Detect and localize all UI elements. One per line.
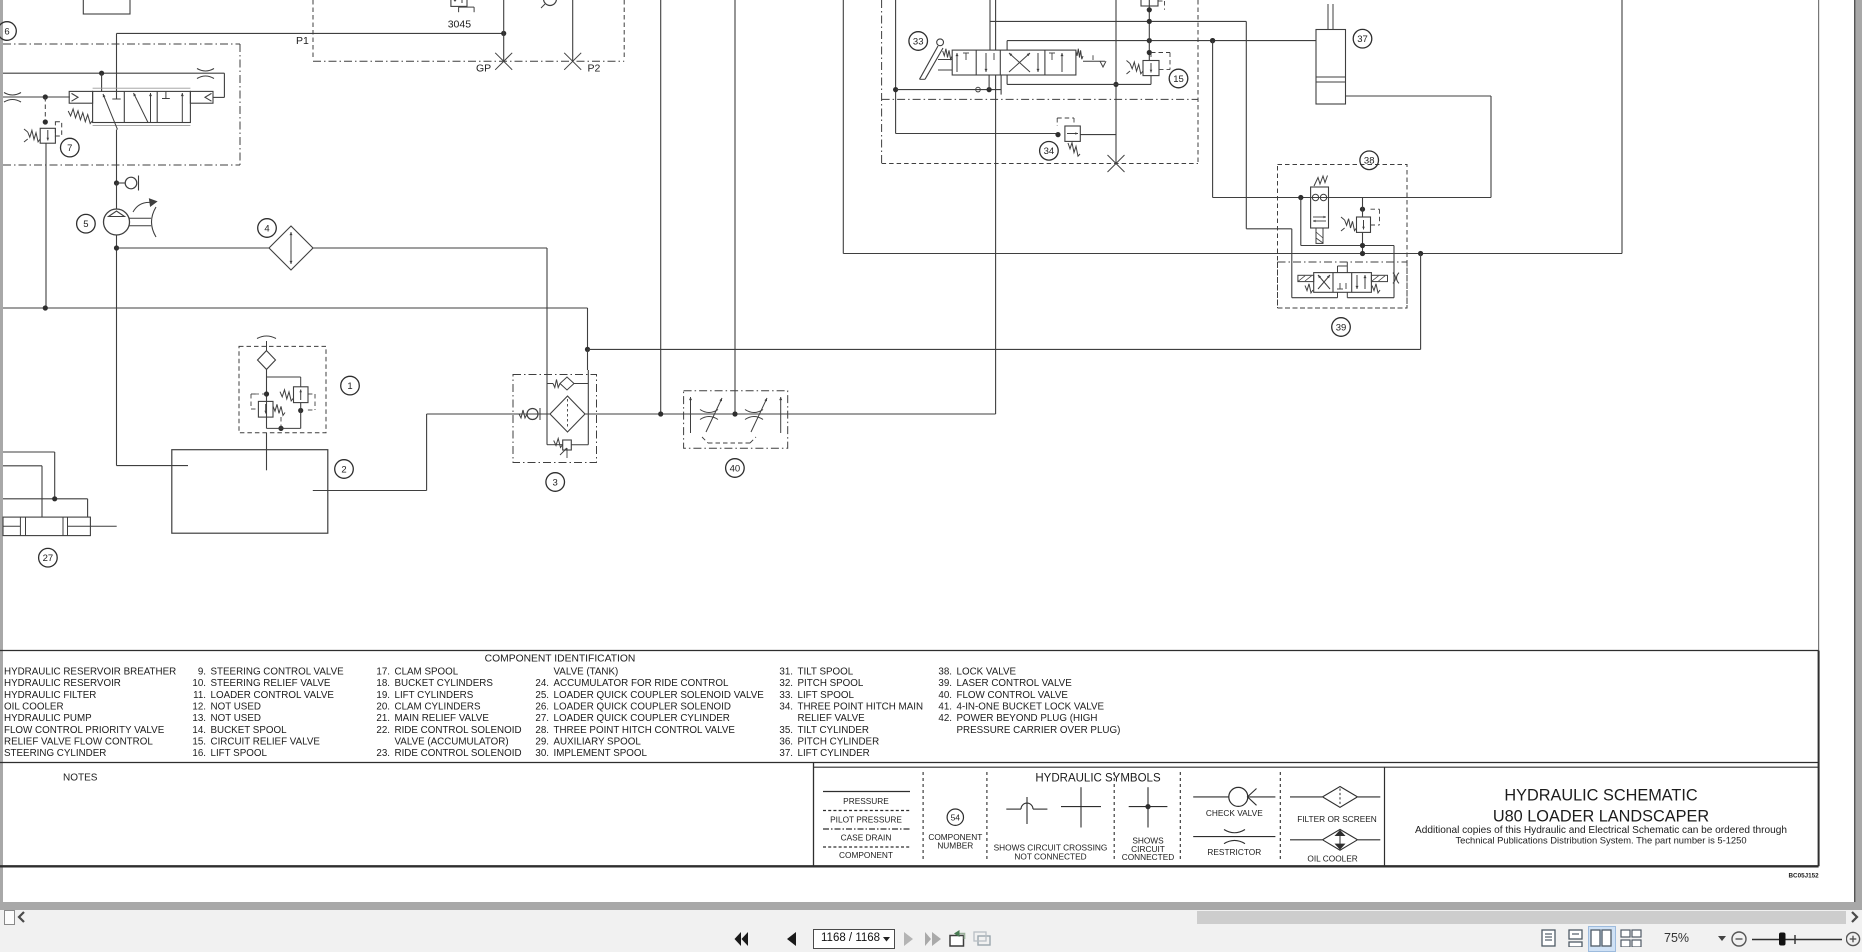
svg-text:LOADER QUICK COUPLER SOLENOID: LOADER QUICK COUPLER SOLENOID VALVE [554, 690, 765, 701]
valve 39 actuators [1298, 275, 1314, 281]
scrollbar left arrow [16, 911, 28, 923]
zoom percent [1664, 931, 1689, 945]
notes hydraulic-symbols divider [813, 763, 815, 867]
svg-text:RELIEF VALVE FLOW CONTROL: RELIEF VALVE FLOW CONTROL [4, 736, 153, 747]
svg-text:GP: GP [476, 63, 491, 75]
svg-text:39.: 39. [938, 678, 952, 689]
valve 6 spring [68, 109, 92, 124]
previous view button [949, 929, 968, 948]
cylinder 27 port wires [3, 451, 55, 453]
svg-text:LOADER CONTROL VALVE: LOADER CONTROL VALVE [211, 690, 335, 701]
GP plug X [495, 53, 512, 70]
pump case drain arrow [133, 202, 152, 212]
symbols box top [814, 766, 1819, 768]
wire valve33 bottom loop to relief 15 [1006, 75, 1008, 84]
svg-text:31.: 31. [779, 667, 793, 678]
node pilot branch [43, 94, 48, 99]
svg-text:LOCK VALVE: LOCK VALVE [957, 667, 1017, 678]
svg-text:POWER BEYOND PLUG (HIGH: POWER BEYOND PLUG (HIGH [957, 713, 1098, 724]
sheet right border frame [1818, 0, 1820, 866]
svg-text:38: 38 [1364, 156, 1375, 167]
scrollbar right arrow [1848, 911, 1860, 923]
svg-text:4-IN-ONE BUCKET LOCK VALVE: 4-IN-ONE BUCKET LOCK VALVE [957, 701, 1105, 712]
valve 6 section arrows [103, 94, 118, 130]
plug X on box 33 [1108, 155, 1125, 172]
gauge circle top [544, 0, 557, 6]
scrollbar left stub box [4, 910, 15, 925]
svg-text:7: 7 [67, 143, 72, 154]
valve 39 body [1314, 273, 1372, 293]
svg-text:NOT USED: NOT USED [211, 713, 261, 724]
wire B-line long vertical [734, 0, 736, 414]
svg-text:RIDE CONTROL SOLENOID: RIDE CONTROL SOLENOID [395, 725, 522, 736]
svg-text:38.: 38. [938, 667, 952, 678]
legend crossing plain symbol [1061, 806, 1101, 808]
svg-text:VALVE (TANK): VALVE (TANK) [554, 667, 619, 678]
svg-text:15: 15 [1173, 74, 1184, 85]
svg-text:NOT CONNECTED: NOT CONNECTED [1014, 852, 1086, 862]
svg-text:LOADER QUICK COUPLER SOLENOID: LOADER QUICK COUPLER SOLENOID [554, 701, 731, 712]
lock valve element [1311, 187, 1329, 228]
svg-text:HYDRAULIC RESERVOIR: HYDRAULIC RESERVOIR [4, 678, 121, 689]
valve 33 lever [937, 39, 944, 46]
hydraulic reservoir 2 [172, 450, 328, 534]
svg-text:LIFT SPOOL: LIFT SPOOL [798, 690, 855, 701]
svg-text:29.: 29. [535, 736, 549, 747]
svg-text:P2: P2 [588, 63, 601, 75]
svg-text:PITCH SPOOL: PITCH SPOOL [798, 678, 864, 689]
svg-text:22.: 22. [376, 725, 390, 736]
svg-text:NOT USED: NOT USED [211, 701, 261, 712]
wire flow control drop [1420, 254, 1422, 350]
reservoir breather 1 dashed box [239, 346, 326, 432]
svg-text:36.: 36. [779, 736, 793, 747]
lift cylinder 37 [1316, 30, 1346, 105]
zoom out circle [1731, 931, 1747, 947]
wire pilot column [1148, 0, 1150, 61]
legend cell dividers [922, 772, 924, 861]
svg-text:37: 37 [1357, 34, 1368, 45]
svg-text:COMPONENT: COMPONENT [839, 850, 893, 860]
node circle 40 [726, 459, 745, 478]
wire pump to filter 4 [117, 247, 548, 249]
svg-text:40: 40 [730, 463, 741, 474]
page number box [813, 929, 895, 949]
svg-text:U80 LOADER LANDSCAPER: U80 LOADER LANDSCAPER [1493, 808, 1709, 826]
sheet bottom border [0, 865, 1819, 867]
svg-text:LIFT SPOOL: LIFT SPOOL [211, 748, 268, 759]
two page view icon (active) [1588, 926, 1616, 952]
svg-text:12.: 12. [192, 701, 206, 712]
wire tank return long [3, 307, 588, 309]
svg-text:19.: 19. [376, 690, 390, 701]
svg-text:16.: 16. [192, 748, 206, 759]
next view button (disabled) [973, 929, 992, 948]
svg-text:TILT CYLINDER: TILT CYLINDER [798, 725, 870, 736]
valve 3 check inline [519, 410, 527, 418]
tank outlet wire [313, 490, 427, 492]
node circle 34 [1040, 142, 1059, 161]
flow control 40 internals [690, 397, 692, 433]
node circle 4 [258, 219, 277, 238]
lock valve 38 dashed box [1278, 165, 1408, 309]
relief valve 7 [40, 128, 55, 143]
restrictor on left inlet wire [4, 93, 21, 96]
svg-text:CHECK VALVE: CHECK VALVE [1206, 808, 1263, 818]
svg-text:21.: 21. [376, 713, 390, 724]
svg-text:OIL COOLER: OIL COOLER [4, 701, 64, 712]
single page view icon [1541, 929, 1556, 947]
legend crossing hop symbol [1006, 808, 1021, 810]
box1 bottom wires [278, 426, 283, 431]
svg-text:14.: 14. [192, 725, 206, 736]
svg-text:27.: 27. [535, 713, 549, 724]
wire to relief 34 [896, 133, 1058, 135]
valve 33 internal arrows [956, 53, 958, 72]
svg-text:LIFT CYLINDER: LIFT CYLINDER [798, 748, 870, 759]
check valve near pump [114, 180, 119, 185]
wire relief to tank wire [1362, 232, 1364, 253]
svg-text:34.: 34. [779, 701, 793, 712]
svg-text:BUCKET SPOOL: BUCKET SPOOL [211, 725, 288, 736]
wire 39 frame right [1393, 246, 1395, 298]
loader valve dashed box 33/34 [881, 0, 883, 164]
wire 40 to vertical [995, 75, 997, 414]
wire lock valve top [1213, 197, 1491, 199]
svg-text:CIRCUIT RELIEF VALVE: CIRCUIT RELIEF VALVE [211, 736, 321, 747]
wire inside box 1 [266, 369, 268, 428]
wire upper pilot to valve 6 [3, 72, 224, 74]
P2 plug X [564, 53, 581, 70]
svg-text:33: 33 [913, 36, 924, 47]
tank inlet wire [117, 465, 189, 467]
svg-text:RESTRICTOR: RESTRICTOR [1207, 847, 1261, 857]
relief valve 34 [1055, 132, 1060, 137]
svg-text:AUXILIARY SPOOL: AUXILIARY SPOOL [554, 736, 642, 747]
node circle 38 [1360, 151, 1379, 170]
legend restrictor [1193, 836, 1275, 838]
valve 3 check top [547, 383, 553, 385]
svg-text:HYDRAULIC SYMBOLS: HYDRAULIC SYMBOLS [1035, 773, 1161, 785]
svg-text:LASER CONTROL VALVE: LASER CONTROL VALVE [957, 678, 1073, 689]
svg-text:PRESSURE: PRESSURE [843, 796, 889, 806]
svg-text:15.: 15. [192, 736, 206, 747]
svg-text:THREE POINT HITCH MAIN: THREE POINT HITCH MAIN [798, 701, 924, 712]
svg-text:RELIEF VALVE: RELIEF VALVE [798, 713, 866, 724]
valve 6 left actuator [69, 91, 92, 103]
valve 3 inner frame [546, 375, 548, 445]
svg-text:COMPONENT IDENTIFICATION: COMPONENT IDENTIFICATION [485, 654, 636, 665]
svg-text:6: 6 [4, 26, 9, 37]
zoom slider [1750, 931, 1850, 947]
wire valve33 bottom left [896, 89, 1002, 91]
node P1 junction [501, 31, 506, 36]
next page button (disabled) [902, 932, 914, 946]
steering cylinder 27 [3, 517, 90, 536]
node circle 3 [546, 473, 565, 492]
laser control valve 39 dash-dot box [1278, 261, 1408, 263]
svg-text:FLOW CONTROL VALVE: FLOW CONTROL VALVE [957, 690, 1069, 701]
component identification table frame [0, 650, 1819, 652]
legend oil cooler [1290, 839, 1322, 841]
title block divider [1384, 767, 1386, 866]
valve 39 top ports [1337, 266, 1339, 273]
laser relief valve in 38 [1360, 207, 1365, 212]
oil cooler 4 diamond [269, 226, 313, 270]
svg-text:11.: 11. [193, 690, 206, 701]
svg-text:NOTES: NOTES [63, 773, 98, 784]
valve 33 detent [1083, 60, 1105, 62]
svg-text:4: 4 [264, 223, 269, 234]
svg-text:ACCUMULATOR FOR RIDE CONTROL: ACCUMULATOR FOR RIDE CONTROL [554, 678, 729, 689]
legend component number [947, 809, 963, 825]
valve 33 springs [943, 49, 953, 60]
svg-text:RIDE CONTROL SOLENOID: RIDE CONTROL SOLENOID [395, 748, 522, 759]
restrictor on upper pilot wire [197, 69, 214, 72]
svg-text:THREE POINT HITCH CONTROL VALV: THREE POINT HITCH CONTROL VALVE [554, 725, 736, 736]
scrollbar thumb [1197, 911, 1846, 924]
svg-text:34: 34 [1044, 146, 1055, 157]
breather filter diamond [258, 351, 276, 370]
svg-text:Technical Publications Distrib: Technical Publications Distribution Syst… [1455, 835, 1746, 846]
wire power beyond top [1245, 21, 1247, 228]
wire tank loop right vertical [1621, 0, 1623, 254]
svg-text:54: 54 [951, 813, 961, 823]
svg-text:HYDRAULIC RESERVOIR BREATHER: HYDRAULIC RESERVOIR BREATHER [4, 667, 176, 678]
relief left in box 1 [258, 401, 273, 417]
solenoid at top pilot [1141, 0, 1158, 6]
svg-text:PRESSURE CARRIER OVER PLUG): PRESSURE CARRIER OVER PLUG) [957, 725, 1121, 736]
valve 6 right actuator [190, 91, 213, 103]
svg-text:BUCKET CYLINDERS: BUCKET CYLINDERS [395, 678, 494, 689]
node circle 5 [77, 214, 96, 233]
flow control valve 40 dash box [684, 391, 788, 449]
solenoid valve 3045 [451, 0, 467, 6]
valve 3 bypass relief [563, 440, 572, 450]
svg-text:3045: 3045 [448, 19, 472, 31]
svg-text:PILOT PRESSURE: PILOT PRESSURE [830, 815, 902, 825]
svg-text:CONNECTED: CONNECTED [1122, 852, 1175, 862]
svg-text:24.: 24. [535, 678, 549, 689]
svg-text:LIFT CYLINDERS: LIFT CYLINDERS [395, 690, 474, 701]
wire filter down to valve 3 [546, 248, 548, 375]
wire 39 frame left [1246, 228, 1292, 230]
control valve 33 body [952, 50, 1076, 75]
svg-text:26.: 26. [535, 701, 549, 712]
wire top feed corner [989, 0, 991, 50]
wire A-line long vertical [660, 0, 662, 414]
node circle 27 [39, 548, 58, 567]
svg-text:13.: 13. [192, 713, 206, 724]
svg-text:30.: 30. [535, 748, 549, 759]
GP P2 dashed box [312, 0, 314, 58]
node circle 33 [909, 32, 928, 51]
svg-text:17.: 17. [376, 667, 390, 678]
svg-text:1: 1 [347, 381, 352, 392]
two page continuous icon [1620, 929, 1642, 947]
svg-text:BC05J152: BC05J152 [1788, 873, 1819, 880]
svg-text:40.: 40. [938, 690, 952, 701]
svg-text:23.: 23. [376, 748, 390, 759]
legend filter or screen [1290, 796, 1322, 798]
pump drive symbol [130, 217, 152, 219]
svg-text:27: 27 [43, 553, 54, 564]
wire top return [1007, 40, 1316, 42]
svg-text:28.: 28. [535, 725, 549, 736]
legend connected symbol [1129, 806, 1168, 808]
node dots at 40 [658, 411, 663, 416]
svg-text:2: 2 [341, 464, 346, 475]
svg-text:MAIN RELIEF VALVE: MAIN RELIEF VALVE [395, 713, 490, 724]
wire P1 [117, 32, 504, 34]
svg-text:STEERING CYLINDER: STEERING CYLINDER [4, 748, 106, 759]
svg-text:STEERING RELIEF VALVE: STEERING RELIEF VALVE [211, 678, 331, 689]
svg-text:HYDRAULIC SCHEMATIC: HYDRAULIC SCHEMATIC [1504, 787, 1698, 805]
svg-text:CLAM CYLINDERS: CLAM CYLINDERS [395, 701, 481, 712]
svg-text:TILT SPOOL: TILT SPOOL [798, 667, 854, 678]
valve 39 bottom frame [1292, 297, 1338, 299]
breather cap [257, 336, 276, 339]
svg-text:P1: P1 [296, 35, 309, 47]
flow control priority valve box 6 (dashed) [3, 43, 240, 45]
svg-text:CLAM SPOOL: CLAM SPOOL [395, 667, 459, 678]
previous page button [786, 932, 798, 946]
zoom in circle [1846, 931, 1862, 947]
svg-text:41.: 41. [938, 701, 952, 712]
node circle 37 [1353, 29, 1372, 48]
svg-text:LOADER QUICK COUPLER CYLINDER: LOADER QUICK COUPLER CYLINDER [554, 713, 730, 724]
page right edge line [1854, 0, 1856, 902]
wire breather to tank [266, 433, 268, 471]
svg-text:IMPLEMENT SPOOL: IMPLEMENT SPOOL [554, 748, 648, 759]
wire cylinder rod side [1346, 95, 1492, 97]
svg-text:5: 5 [83, 219, 88, 230]
filter-valve 3 dashed box [513, 375, 597, 463]
wire tank loop left vertical [842, 0, 844, 254]
first page button [734, 932, 750, 946]
wire cylinder 37 feed [1210, 38, 1215, 43]
svg-text:HYDRAULIC PUMP: HYDRAULIC PUMP [4, 713, 92, 724]
continuous view icon [1568, 929, 1583, 947]
wire plugged port vertical [1115, 0, 1117, 164]
wire relief 7 to tank line [45, 143, 47, 308]
svg-text:42.: 42. [938, 713, 952, 724]
wire mid return long [588, 348, 1421, 350]
svg-text:OIL COOLER: OIL COOLER [1307, 854, 1357, 864]
svg-text:CASE DRAIN: CASE DRAIN [841, 833, 892, 843]
valve 6 body (steering priority spool) [93, 91, 191, 122]
relief right in box 1 [294, 387, 309, 403]
valve 3 filter diamond [550, 396, 585, 432]
node circle 2 [335, 460, 354, 479]
top-left cut rectangle [83, 0, 130, 14]
node circle 1 [341, 376, 360, 395]
node circle 6 [0, 22, 16, 41]
wire into pump [116, 183, 118, 209]
legend line samples [823, 791, 910, 793]
svg-text:37.: 37. [779, 748, 793, 759]
svg-text:STEERING CONTROL VALVE: STEERING CONTROL VALVE [211, 667, 345, 678]
svg-text:20.: 20. [376, 701, 390, 712]
svg-text:32.: 32. [779, 678, 793, 689]
svg-text:39: 39 [1336, 322, 1347, 333]
svg-text:25.: 25. [535, 690, 549, 701]
svg-text:FILTER OR SCREEN: FILTER OR SCREEN [1297, 814, 1377, 824]
node circle 39 [1332, 318, 1351, 337]
node circle 7 [61, 138, 80, 157]
svg-text:3: 3 [553, 477, 558, 488]
svg-text:VALVE (ACCUMULATOR): VALVE (ACCUMULATOR) [395, 736, 509, 747]
svg-text:NUMBER: NUMBER [937, 841, 973, 851]
legend check valve [1193, 796, 1228, 798]
svg-text:35.: 35. [779, 725, 793, 736]
hydraulic pump 5 [104, 209, 130, 235]
wire pump outlet [116, 235, 118, 466]
svg-text:PITCH CYLINDER: PITCH CYLINDER [798, 736, 880, 747]
last page button (disabled) [924, 932, 942, 946]
svg-text:18.: 18. [376, 678, 390, 689]
svg-text:9.: 9. [198, 667, 206, 678]
svg-text:FLOW CONTROL PRIORITY VALVE: FLOW CONTROL PRIORITY VALVE [4, 725, 165, 736]
wire GP drop [503, 0, 505, 61]
wire main to valve 3 [427, 413, 996, 415]
wire feed vertical left of valve 33 [895, 0, 897, 134]
wire lock valve left branch [1300, 198, 1302, 246]
relief valve 15 [1143, 61, 1159, 76]
wire tank loop bottom [843, 253, 1622, 255]
node circle 15 [1169, 69, 1188, 88]
svg-text:33.: 33. [779, 690, 793, 701]
wire P2 drop [572, 0, 574, 61]
svg-text:10.: 10. [192, 678, 206, 689]
wire left inlet to valve 6 [3, 96, 70, 98]
svg-text:HYDRAULIC FILTER: HYDRAULIC FILTER [4, 690, 96, 701]
